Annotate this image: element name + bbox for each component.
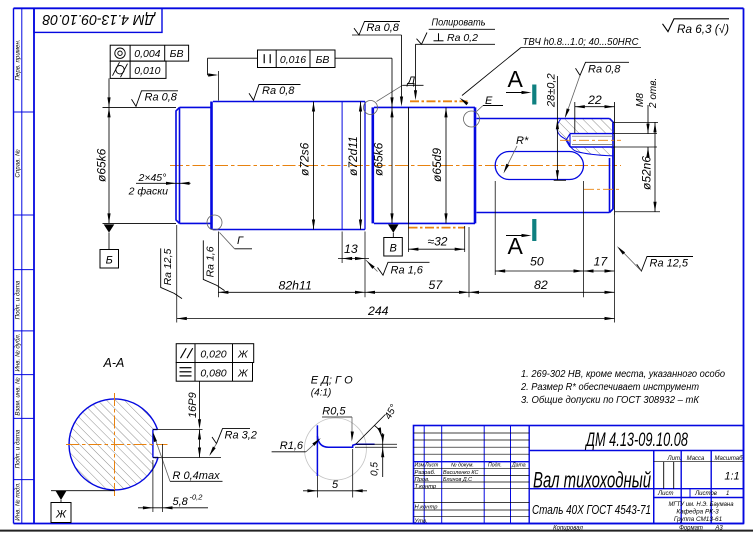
keyway slot (495, 152, 583, 180)
svg-text:М8: М8 (635, 93, 646, 107)
leader 0,016 left (208, 57, 258, 59)
svg-text:Е Д; Г О: Е Д; Г О (311, 375, 353, 387)
svg-text:Ж: Ж (237, 367, 249, 379)
45 deg extension (356, 414, 386, 444)
svg-text:А3: А3 (714, 525, 723, 531)
svg-text:R1,6: R1,6 (280, 440, 304, 452)
dim 22 (574, 102, 576, 133)
svg-text:1. 269-302 НВ, кроме места, у: 1. 269-302 НВ, кроме места, указанного о… (521, 368, 725, 380)
svg-text:Сталь 40Х ГОСТ 4543-71: Сталь 40Х ГОСТ 4543-71 (532, 502, 651, 517)
svg-text:ТВЧ h0.8...1.0; 40...50HRC: ТВЧ h0.8...1.0; 40...50HRC (523, 36, 639, 48)
page bottom edge (0, 530, 753, 532)
dim 5,8-0,2 (152, 460, 154, 512)
svg-text:Подп.: Подп. (488, 463, 502, 469)
dim 82 (614, 215, 616, 323)
svg-text:ø72s6: ø72s6 (298, 142, 312, 176)
svg-text:1:1: 1:1 (724, 471, 739, 483)
svg-text:Полировать: Полировать (432, 17, 486, 29)
shaft axis centerline (170, 165, 621, 167)
svg-text:Пров.: Пров. (415, 477, 430, 483)
dim 13 (341, 232, 343, 264)
dim 2x45 chamfer (136, 182, 191, 184)
svg-text:Формат: Формат (679, 525, 703, 531)
svg-text:Г: Г (237, 235, 244, 247)
svg-text:БВ: БВ (170, 48, 184, 60)
svg-text:Ra 0,8: Ra 0,8 (262, 85, 295, 97)
A-A centerlines (66, 444, 168, 446)
dim o65k6 left (103, 106, 177, 108)
svg-text:≈32: ≈32 (428, 235, 448, 249)
svg-text:ø52n6: ø52n6 (640, 156, 654, 190)
roughness Ra 12,5 right with leader (637, 257, 693, 272)
svg-text:Подп. и дата: Подп. и дата (15, 429, 22, 468)
svg-text:R0,5: R0,5 (322, 405, 346, 417)
svg-text:Ra 6,3 (√): Ra 6,3 (√) (677, 23, 729, 36)
svg-text:3. Общие допуски по ГОСТ 30893: 3. Общие допуски по ГОСТ 308932 – тК (521, 394, 700, 406)
general roughness Ra 6,3 (663, 19, 730, 32)
svg-text:Н.контр: Н.контр (415, 505, 439, 511)
dim 244 (176, 225, 178, 323)
svg-text:Кафедра РК-3: Кафедра РК-3 (676, 508, 719, 516)
dim 28+-0,2 (554, 179, 566, 181)
svg-text:Ra 0,2: Ra 0,2 (447, 32, 478, 44)
section plane mark A bottom (532, 219, 536, 241)
dim 82h11 (217, 232, 219, 298)
svg-text:Листов: Листов (694, 491, 717, 497)
svg-text:Ra 0,8: Ra 0,8 (145, 91, 178, 103)
title repeat box (rotated designation) (34, 8, 162, 32)
svg-text:Лист: Лист (424, 463, 439, 469)
boundary k6/d9 (407, 107, 409, 223)
step d11 to o65k6 (371, 107, 374, 223)
svg-text:Справ. №: Справ. № (15, 149, 22, 177)
svg-text:Масштаб: Масштаб (714, 456, 743, 462)
svg-text:ДМ 4.13-09.10.08: ДМ 4.13-09.10.08 (42, 11, 156, 28)
roughness Ra 1,6 at 13 (366, 260, 378, 272)
svg-text:Ж: Ж (237, 349, 249, 361)
svg-text:2 фаски: 2 фаски (128, 186, 169, 198)
dim o72s6 (313, 102, 315, 230)
svg-text:ДМ 4.13-09.10.08: ДМ 4.13-09.10.08 (585, 430, 689, 451)
leader 0,016 right (335, 57, 392, 59)
title block (414, 426, 744, 524)
svg-text:16P9: 16P9 (187, 392, 199, 418)
dim M8 / 2 holes (613, 133, 657, 135)
hatch of local section upper (558, 119, 613, 140)
tol frame 0,010 (110, 61, 166, 78)
svg-text:ø65d9: ø65d9 (430, 148, 444, 182)
roughness Ra 1,6 rotated (203, 240, 224, 290)
dim o65d9 (445, 107, 447, 223)
roughness Ra 0,8 sec1 (132, 91, 179, 107)
roughness Ra 0,8 sec2 (249, 85, 301, 101)
svg-text:Взам. инв. №: Взам. инв. № (15, 377, 22, 416)
svg-text:13: 13 (344, 242, 358, 256)
svg-text:Группа СМ13-61: Группа СМ13-61 (674, 516, 723, 523)
svg-text:0,004: 0,004 (134, 48, 160, 60)
svg-text:50: 50 (530, 255, 544, 269)
svg-text:Б: Б (106, 255, 113, 267)
fillet circle G (207, 215, 222, 230)
svg-text:22: 22 (587, 93, 602, 107)
detail boundary circle (304, 418, 366, 480)
roughness Ra 0,8 near hole (576, 62, 630, 75)
svg-text:0,5: 0,5 (370, 462, 381, 476)
svg-text:R 0,4max: R 0,4max (173, 470, 221, 482)
svg-text:Изм.: Изм. (415, 463, 426, 469)
svg-text:Ж: Ж (55, 509, 67, 521)
svg-text:№ докум.: № докум. (451, 463, 474, 469)
svg-text:Ra 12,5: Ra 12,5 (162, 248, 174, 285)
svg-text:Дата: Дата (511, 463, 526, 469)
svg-text:82: 82 (534, 278, 548, 292)
svg-text:244: 244 (367, 304, 389, 318)
step o65d9 to o52n6 (474, 107, 477, 223)
svg-text:Инв. № дубл.: Инв. № дубл. (15, 333, 22, 371)
svg-text:Ra 3,2: Ra 3,2 (225, 430, 257, 442)
dim o72d11 (360, 102, 362, 230)
local section break line (557, 119, 613, 156)
shaft sections 3-4 o65k6/o65d9 outline (374, 106, 475, 108)
datum Zh flag (51, 490, 115, 492)
svg-text:17: 17 (594, 254, 609, 268)
tol frame 0,020 (176, 344, 254, 363)
section plane mark A top (532, 85, 536, 105)
datum V flag (388, 224, 399, 232)
svg-text:Ra 1,6: Ra 1,6 (391, 264, 424, 276)
svg-text:-0,2: -0,2 (190, 493, 204, 502)
svg-text:82h11: 82h11 (279, 279, 312, 293)
svg-text:А: А (508, 66, 524, 92)
dim o65k6 mid (391, 58, 393, 223)
svg-text:(4:1): (4:1) (311, 388, 332, 399)
dim 0,5 (357, 443, 397, 445)
svg-text:Лист: Лист (657, 491, 673, 497)
roughness Ra 12,5 rotated (161, 248, 182, 298)
keyway in section (152, 430, 154, 458)
svg-text:Инв. № подл.: Инв. № подл. (15, 482, 22, 520)
hatch of local section lower (569, 142, 614, 156)
svg-text:1: 1 (726, 491, 729, 497)
dim 17 (584, 270, 615, 272)
groove profile (316, 425, 318, 476)
tol frame 0,004 (110, 45, 188, 61)
svg-text:Ra 0,8: Ra 0,8 (367, 22, 400, 34)
svg-text:Ra 1,6: Ra 1,6 (205, 246, 217, 277)
fillet circle E (464, 111, 480, 127)
hole centerline (560, 139, 621, 141)
svg-text:Ra 0,8: Ra 0,8 (588, 63, 621, 75)
svg-text:Разраб.: Разраб. (415, 470, 436, 476)
svg-text:2. Размер R* обеспечивает инст: 2. Размер R* обеспечивает инструмент (520, 381, 699, 393)
hardened zone mark above (410, 100, 468, 102)
svg-text:Василенко КС: Василенко КС (443, 470, 478, 476)
svg-text:Лит.: Лит. (667, 456, 682, 462)
roughness leader Ra 0,8 polished (352, 34, 402, 36)
left margin cells (14, 111, 35, 113)
svg-text:28±0,2: 28±0,2 (546, 73, 558, 108)
right end face with chamfers (610, 119, 614, 213)
dim o52n6 (615, 211, 660, 213)
tol frame 0,016 (258, 50, 336, 68)
svg-text:0,080: 0,080 (200, 367, 226, 379)
dim approx 32 (407, 107, 409, 252)
svg-text:Подп. и дата: Подп. и дата (15, 280, 22, 319)
svg-text:В: В (390, 243, 397, 255)
svg-text:R*: R* (516, 135, 529, 147)
fillet circle D (364, 101, 378, 115)
svg-text:Перв. примен.: Перв. примен. (15, 39, 22, 80)
svg-text:ø65k6: ø65k6 (372, 142, 386, 176)
svg-text:Блинов Д.С: Блинов Д.С (443, 477, 472, 483)
svg-text:ø65k6: ø65k6 (95, 148, 109, 182)
shaft section 1 o65k6 outline (176, 107, 180, 223)
A-A hatched circle (69, 399, 158, 490)
svg-text:А: А (508, 233, 524, 259)
dim 16P9 (153, 429, 203, 431)
svg-text:МГТУ им. Н.Э. Баумана: МГТУ им. Н.Э. Баумана (669, 501, 734, 508)
svg-text:Т.контр: Т.контр (415, 484, 438, 490)
shoulder step to o72s6 (210, 102, 213, 230)
o72d11 right face (364, 102, 366, 230)
svg-text:2 отв.: 2 отв. (648, 78, 659, 109)
dim 5 (316, 476, 318, 498)
svg-text:Масса: Масса (687, 456, 705, 462)
svg-text:2×45°: 2×45° (138, 172, 167, 184)
drawing sheet frame (14, 7, 744, 9)
boundary s6/d11 (341, 102, 343, 230)
M8 threaded hole (570, 133, 613, 135)
shaft section 5 o52n6 outline (477, 118, 610, 120)
svg-text:57: 57 (429, 278, 444, 292)
svg-text:А-А: А-А (103, 356, 125, 370)
datum B flag (104, 224, 115, 232)
svg-text:0,010: 0,010 (134, 65, 160, 77)
dim 57 (468, 227, 470, 297)
leader to keyway dim (199, 381, 201, 425)
svg-text:ø72d11: ø72d11 (346, 136, 360, 176)
svg-text:Утв.: Утв. (414, 519, 428, 525)
svg-text:0,016: 0,016 (280, 54, 306, 66)
dim 50 (494, 181, 496, 275)
svg-text:5,8: 5,8 (173, 496, 189, 508)
svg-text:5: 5 (332, 479, 339, 491)
roughness Ra 3,2 (212, 429, 250, 444)
svg-text:Ra 12,5: Ra 12,5 (650, 258, 689, 270)
shaft section 2 o72s6 outline (213, 101, 365, 103)
second hole centerline (584, 188, 620, 190)
svg-text:Вал тихоходный: Вал тихоходный (533, 468, 651, 493)
hardened zone mark below (409, 227, 465, 229)
svg-text:БВ: БВ (316, 54, 330, 66)
tol frame 0,080 (176, 363, 252, 382)
svg-text:Копировал: Копировал (553, 525, 583, 531)
svg-text:0,020: 0,020 (200, 349, 226, 361)
